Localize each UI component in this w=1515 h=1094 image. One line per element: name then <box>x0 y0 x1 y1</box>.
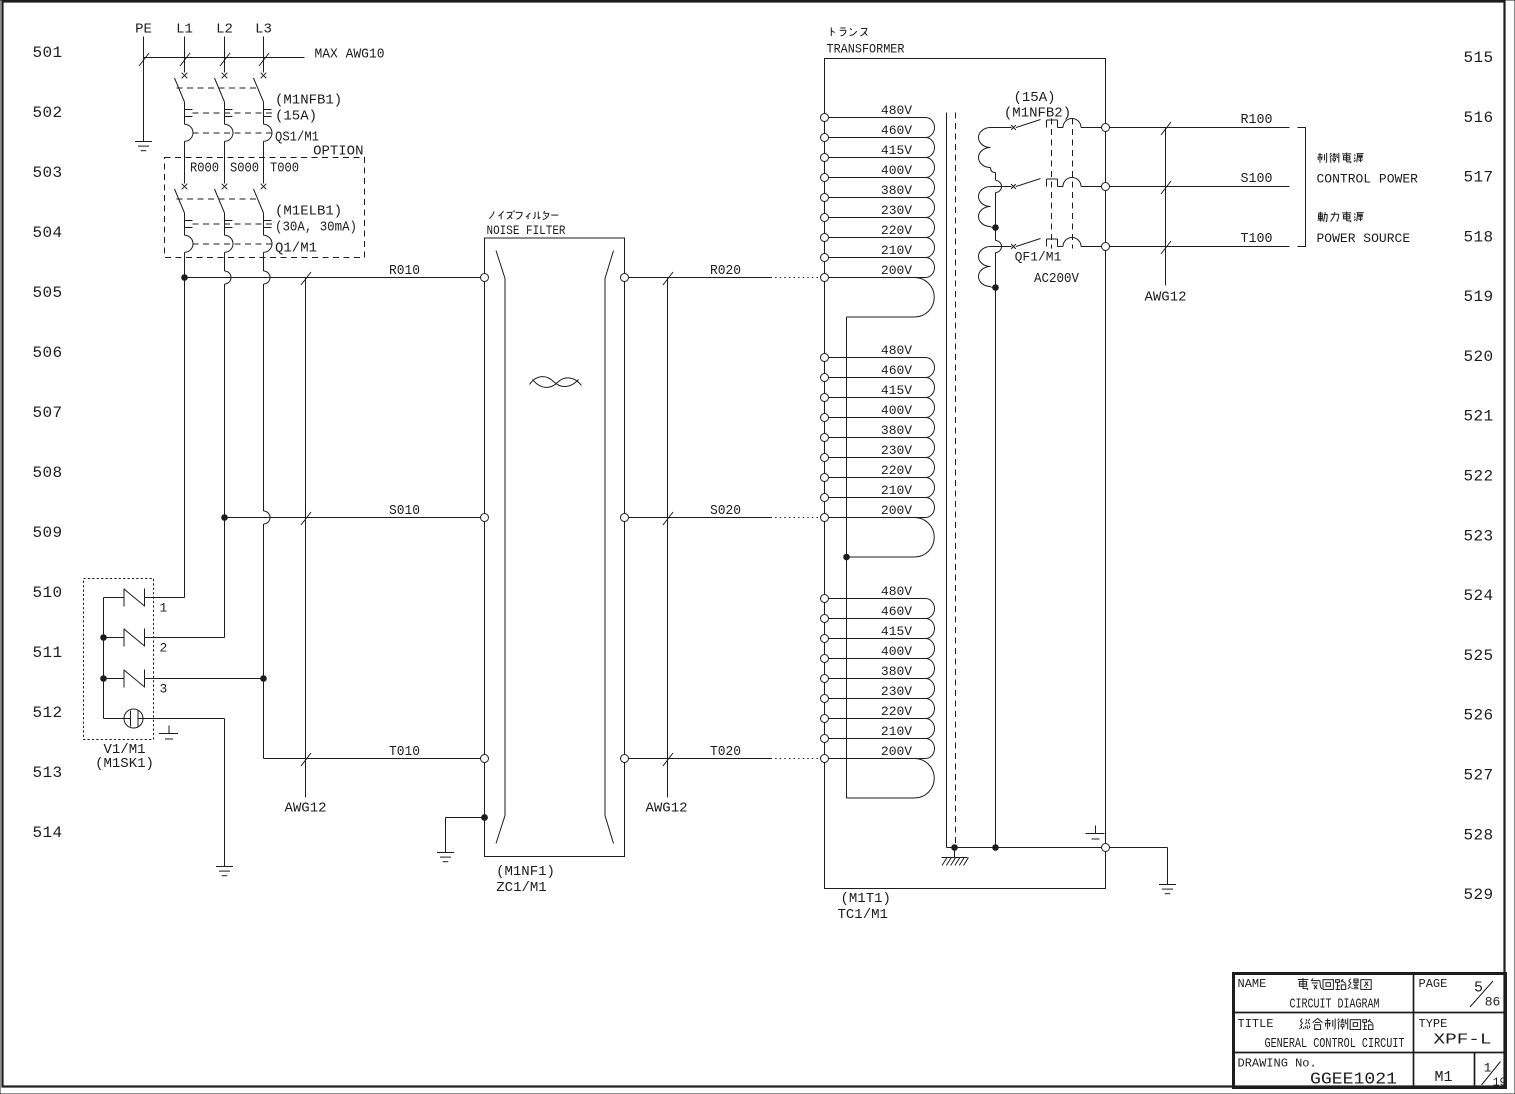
primary winding arc group 2 turn 1 <box>926 358 935 378</box>
wire S010 <box>225 517 481 519</box>
wire AWG12 gauge indicator right <box>1165 128 1167 286</box>
svg-text:POWER SOURCE: POWER SOURCE <box>1317 231 1411 246</box>
primary winding arc group 1 turn 1 <box>926 118 935 138</box>
gauge slash T020 <box>663 753 673 766</box>
terminal primary tap 220V group 2 <box>821 474 829 482</box>
svg-text:GGEE1021: GGEE1021 <box>1310 1071 1397 1090</box>
primary tap wire 400V group 1 <box>829 177 926 179</box>
svg-text:AC200V: AC200V <box>1034 271 1080 287</box>
wire arrester 3 to left bus <box>104 678 125 680</box>
primary winding arc group 1 turn 5 <box>926 198 935 218</box>
svg-text:517: 517 <box>1463 169 1493 187</box>
svg-text:518: 518 <box>1463 228 1493 246</box>
breaker QF1/M1 pole S <box>1011 178 1101 189</box>
svg-text:(M1NFB2): (M1NFB2) <box>1004 106 1071 122</box>
wire S coil bottom to common + junction <box>991 227 996 228</box>
terminal primary tap 210V group 3 <box>821 735 829 743</box>
secondary coil T <box>979 247 991 287</box>
svg-text:T020: T020 <box>710 744 741 760</box>
svg-text:TRANSFORMER: TRANSFORMER <box>827 42 905 57</box>
svg-text:521: 521 <box>1463 408 1493 426</box>
gauge slash R100 <box>1161 122 1171 135</box>
wire noise filter earth <box>446 818 485 853</box>
terminal primary tap 400V group 2 <box>821 414 829 422</box>
wire PE vertical <box>143 37 145 142</box>
wire earth out to ground <box>1110 848 1168 885</box>
terminal primary tap 460V group 2 <box>821 374 829 382</box>
svg-text:L1: L1 <box>176 22 193 38</box>
wire coil R to breaker <box>991 127 1012 129</box>
primary winding arc group 1 turn 4 <box>926 178 935 198</box>
wire coil T to breaker <box>991 246 1012 248</box>
wire S020 <box>629 517 821 519</box>
svg-text:TC1/M1: TC1/M1 <box>838 907 888 923</box>
svg-text:400V: 400V <box>881 163 912 178</box>
svg-text:230V: 230V <box>881 203 912 218</box>
wire AWG12 gauge indicator middle <box>667 278 669 798</box>
svg-text:T000: T000 <box>270 161 299 177</box>
primary tap wire 200V group 3 <box>829 758 926 760</box>
svg-text:520: 520 <box>1463 348 1493 366</box>
svg-text:415V: 415V <box>881 143 912 158</box>
svg-text:230V: 230V <box>881 684 912 699</box>
wire T column to T010 <box>263 679 265 759</box>
svg-text:NAME: NAME <box>1238 977 1267 991</box>
svg-text:516: 516 <box>1463 109 1493 127</box>
svg-text:NOISE FILTER: NOISE FILTER <box>487 223 566 238</box>
surge absorber V1/M1 dotted box <box>84 579 154 740</box>
svg-text:505: 505 <box>32 284 62 302</box>
noise filter inner rail right <box>605 251 614 844</box>
terminal R right <box>621 274 629 282</box>
svg-text:529: 529 <box>1463 886 1493 904</box>
breaker Q1/M1 pole R <box>175 184 194 253</box>
svg-text:400V: 400V <box>881 403 912 418</box>
noise filter wave symbol <box>530 377 582 388</box>
label noise filter katakana <box>489 211 558 220</box>
wire L3 drop to breaker <box>263 37 265 73</box>
svg-text:210V: 210V <box>881 243 912 258</box>
svg-text:480V: 480V <box>881 584 912 599</box>
svg-text:CIRCUIT DIAGRAM: CIRCUIT DIAGRAM <box>1290 997 1380 1013</box>
gauge slash S020 <box>663 512 673 525</box>
wire R000 between breakers <box>184 141 186 183</box>
terminal T right <box>621 755 629 763</box>
arrester 3 <box>124 670 145 688</box>
svg-text:AWG12: AWG12 <box>645 801 687 817</box>
noise filter inner rail left <box>496 251 505 844</box>
transformer core bar solid <box>946 113 948 848</box>
terminal T left <box>481 755 489 763</box>
terminal primary tap 210V group 1 <box>821 254 829 262</box>
wire primary common return <box>846 317 848 798</box>
svg-text:380V: 380V <box>881 423 912 438</box>
label control power japanese <box>1317 153 1363 164</box>
svg-text:19: 19 <box>1493 1077 1507 1090</box>
wire arrester 1 to left bus <box>104 597 125 599</box>
breaker QS1/M1 pole L1 <box>175 73 194 142</box>
primary winding arc group 3 turn 7 <box>926 719 935 739</box>
primary winding end arc group 1 <box>847 278 935 318</box>
svg-text:513: 513 <box>32 764 62 782</box>
primary winding arc group 1 turn 3 <box>926 158 935 178</box>
primary tap wire 415V group 3 <box>829 638 926 640</box>
primary tap wire 200V group 2 <box>829 517 926 519</box>
wire T100 <box>1110 246 1290 248</box>
label title japanese <box>1300 1018 1373 1029</box>
primary tap wire 400V group 2 <box>829 417 926 419</box>
svg-text:R000: R000 <box>190 161 219 177</box>
svg-text:480V: 480V <box>881 103 912 118</box>
primary winding arc group 3 turn 2 <box>926 619 935 639</box>
svg-text:2: 2 <box>160 641 168 656</box>
primary winding arc group 2 turn 3 <box>926 398 935 418</box>
terminal primary tap 380V group 3 <box>821 675 829 683</box>
gauge slash T010 <box>301 753 311 766</box>
primary tap wire 480V group 2 <box>829 357 926 359</box>
junction dot primary return group2 <box>843 554 850 561</box>
terminal primary tap 480V group 3 <box>821 595 829 603</box>
svg-text:T010: T010 <box>389 744 420 760</box>
terminal primary tap 220V group 3 <box>821 715 829 723</box>
svg-text:Q1/M1: Q1/M1 <box>275 241 317 257</box>
svg-text:509: 509 <box>32 524 62 542</box>
chassis ground hatched <box>942 848 969 866</box>
primary tap wire 220V group 3 <box>829 718 926 720</box>
page fraction 5/86 <box>1470 980 1500 1010</box>
breaker QF1/M1 pole R <box>1011 119 1101 130</box>
wire secondary common vertical <box>996 173 1002 848</box>
junction dot screen to earth <box>951 844 958 851</box>
terminal R left <box>481 274 489 282</box>
arrester 1 <box>124 589 145 607</box>
svg-text:515: 515 <box>1463 49 1493 67</box>
primary tap wire 480V group 1 <box>829 117 926 119</box>
wire L2 drop to breaker <box>224 37 226 73</box>
breaker QF1/M1 linkage dashed <box>1052 119 1073 249</box>
svg-text:S010: S010 <box>389 503 420 519</box>
junction dot secondary common to earth <box>992 844 999 851</box>
primary winding arc group 3 turn 3 <box>926 639 935 659</box>
svg-text:XPF-L: XPF-L <box>1434 1032 1492 1049</box>
svg-text:504: 504 <box>32 224 62 242</box>
terminal primary tap 415V group 3 <box>821 635 829 643</box>
terminal primary tap 480V group 2 <box>821 354 829 362</box>
primary winding arc group 3 turn 6 <box>926 699 935 719</box>
svg-text:3: 3 <box>160 682 168 697</box>
svg-text:380V: 380V <box>881 664 912 679</box>
svg-text:(M1ELB1): (M1ELB1) <box>275 204 342 220</box>
terminal secondary S <box>1102 183 1110 191</box>
primary winding arc group 2 turn 6 <box>926 458 935 478</box>
terminal S right <box>621 514 629 522</box>
label name japanese <box>1298 978 1371 990</box>
terminal secondary R <box>1102 124 1110 132</box>
svg-text:503: 503 <box>32 164 62 182</box>
svg-text:(30A, 30mA): (30A, 30mA) <box>275 220 357 236</box>
gauge slash L2 <box>220 53 230 66</box>
svg-text:506: 506 <box>32 344 62 362</box>
svg-text:508: 508 <box>32 464 62 482</box>
wire S000 between breakers <box>224 141 226 183</box>
primary tap wire 460V group 1 <box>829 137 926 139</box>
svg-text:TYPE: TYPE <box>1419 1017 1448 1031</box>
terminal earth noise filter <box>481 814 488 821</box>
svg-text:OPTION: OPTION <box>313 144 363 160</box>
wire T000 between breakers <box>263 141 265 183</box>
wire L2 to arrester 2 <box>145 518 225 638</box>
svg-text:510: 510 <box>32 584 62 602</box>
primary tap wire 460V group 3 <box>829 618 926 620</box>
svg-text:523: 523 <box>1463 527 1493 545</box>
svg-text:400V: 400V <box>881 644 912 659</box>
breaker Q1/M1 pole S <box>215 184 234 253</box>
primary tap wire 200V group 1 <box>829 277 926 279</box>
wire arrester 3 to T column <box>145 678 264 680</box>
svg-text:501: 501 <box>32 44 62 62</box>
ground under V1 drop <box>216 867 233 876</box>
svg-text:527: 527 <box>1463 767 1493 785</box>
wire T010 <box>264 758 481 760</box>
breaker QS1/M1 linkage dashed lines <box>177 88 273 133</box>
primary winding end arc group 2 <box>847 518 935 558</box>
title block frame <box>1234 974 1506 1088</box>
primary winding arc group 2 turn 2 <box>926 378 935 398</box>
wire V1 left bus <box>103 598 105 719</box>
svg-text:GENERAL CONTROL CIRCUIT: GENERAL CONTROL CIRCUIT <box>1265 1036 1405 1052</box>
svg-text:522: 522 <box>1463 468 1493 486</box>
terminal transformer earth <box>1102 844 1110 852</box>
wire S100 <box>1110 186 1290 188</box>
ground noise filter earth <box>437 853 454 862</box>
svg-text:DRAWING No.: DRAWING No. <box>1238 1057 1317 1071</box>
svg-text:T100: T100 <box>1241 231 1273 247</box>
wire R100 <box>1110 127 1290 129</box>
svg-text:210V: 210V <box>881 483 912 498</box>
label transformer katakana <box>831 27 867 36</box>
bracket power outputs <box>1298 128 1306 247</box>
svg-text:507: 507 <box>32 404 62 422</box>
terminal secondary T <box>1102 243 1110 251</box>
svg-text:(M1NFB1): (M1NFB1) <box>275 93 342 109</box>
svg-text:S000: S000 <box>230 161 259 177</box>
primary winding arc group 1 turn 6 <box>926 218 935 238</box>
svg-text:512: 512 <box>32 704 62 722</box>
primary winding arc group 2 turn 7 <box>926 478 935 498</box>
svg-text:460V: 460V <box>881 363 912 378</box>
wire L1 breaker to R010 junction <box>184 252 186 277</box>
gauge slash T100 <box>1161 241 1171 254</box>
svg-text:528: 528 <box>1463 826 1493 844</box>
breaker Q1/M1 pole T <box>254 184 273 253</box>
svg-text:(15A): (15A) <box>275 109 317 125</box>
gauge slash S100 <box>1161 181 1171 194</box>
terminal primary tap 380V group 1 <box>821 194 829 202</box>
svg-text:502: 502 <box>32 104 62 122</box>
wire R coil bottom to common <box>991 168 996 173</box>
transformer box <box>825 59 1106 889</box>
junction dot T column / arrester 3 <box>260 675 267 682</box>
secondary coil S <box>979 187 991 227</box>
svg-text:480V: 480V <box>881 343 912 358</box>
svg-text:200V: 200V <box>881 744 912 759</box>
sheet fraction 1/19 <box>1482 1061 1507 1090</box>
primary tap wire 230V group 1 <box>829 217 926 219</box>
secondary coil R <box>979 128 991 168</box>
primary winding arc group 2 turn 8 <box>926 498 935 518</box>
primary tap wire 210V group 2 <box>829 497 926 499</box>
primary tap wire 380V group 2 <box>829 437 926 439</box>
terminal primary tap 210V group 2 <box>821 494 829 502</box>
breaker Q1/M1 linkage dashed lines <box>177 199 273 244</box>
primary winding arc group 1 turn 2 <box>926 138 935 158</box>
svg-text:R020: R020 <box>710 263 741 279</box>
junction dot R010 <box>181 274 188 281</box>
label power source japanese <box>1318 212 1364 223</box>
svg-text:526: 526 <box>1463 707 1493 725</box>
terminal primary tap 230V group 1 <box>821 214 829 222</box>
svg-text:L2: L2 <box>216 22 233 38</box>
gauge slash S010 <box>301 512 311 525</box>
svg-text:MAX AWG10: MAX AWG10 <box>315 47 385 63</box>
wire MAX AWG10 gauge line <box>144 57 305 59</box>
earth marker above terminal <box>1086 826 1105 840</box>
svg-text:524: 524 <box>1463 587 1493 605</box>
primary winding arc group 2 turn 5 <box>926 438 935 458</box>
transformer core screen dashed <box>955 113 957 848</box>
ground PE earth symbol <box>135 142 152 151</box>
wire T coil bottom to common + junction <box>991 287 996 288</box>
wire L1 to arrester 1 <box>145 278 185 598</box>
terminal primary tap 380V group 2 <box>821 434 829 442</box>
svg-text:S020: S020 <box>710 503 741 519</box>
terminal primary tap 200V group 1 <box>821 274 829 282</box>
svg-text:(M1T1): (M1T1) <box>841 891 891 907</box>
primary tap wire 400V group 3 <box>829 658 926 660</box>
svg-text:380V: 380V <box>881 183 912 198</box>
wire tube to ground drop <box>138 719 225 867</box>
svg-text:R010: R010 <box>389 263 420 279</box>
gauge slash L1 <box>180 53 190 66</box>
arrester 2 <box>124 629 145 647</box>
noise filter box <box>485 238 625 857</box>
svg-text:1: 1 <box>160 601 168 616</box>
primary winding arc group 3 turn 8 <box>926 739 935 759</box>
wire R020 <box>629 277 821 279</box>
primary tap wire 220V group 1 <box>829 237 926 239</box>
svg-text:220V: 220V <box>881 704 912 719</box>
terminal primary tap 415V group 2 <box>821 394 829 402</box>
svg-text:460V: 460V <box>881 604 912 619</box>
svg-text:PAGE: PAGE <box>1419 977 1448 991</box>
svg-text:PE: PE <box>135 22 152 38</box>
terminal primary tap 460V group 1 <box>821 134 829 142</box>
svg-text:AWG12: AWG12 <box>284 801 326 817</box>
svg-text:514: 514 <box>32 824 62 842</box>
primary tap wire 230V group 2 <box>829 457 926 459</box>
svg-text:S100: S100 <box>1241 171 1273 187</box>
svg-text:CONTROL POWER: CONTROL POWER <box>1317 172 1419 187</box>
breaker QS1/M1 pole L2 <box>215 73 234 142</box>
primary tap wire 230V group 3 <box>829 698 926 700</box>
wire coil S to breaker <box>991 186 1012 188</box>
primary winding arc group 3 turn 4 <box>926 659 935 679</box>
primary tap wire 380V group 3 <box>829 678 926 680</box>
primary tap wire 415V group 1 <box>829 157 926 159</box>
gauge slash R020 <box>663 272 673 285</box>
svg-text:TITLE: TITLE <box>1238 1017 1274 1031</box>
primary winding arc group 1 turn 7 <box>926 238 935 258</box>
svg-text:AWG12: AWG12 <box>1144 290 1186 306</box>
wire R010 <box>185 277 481 279</box>
primary tap wire 460V group 2 <box>829 377 926 379</box>
primary tap wire 210V group 3 <box>829 738 926 740</box>
terminal primary tap 400V group 1 <box>821 174 829 182</box>
wire T020 <box>629 758 821 760</box>
svg-text:(M1SK1): (M1SK1) <box>95 756 154 772</box>
svg-text:ZC1/M1: ZC1/M1 <box>496 880 546 896</box>
gauge slash R010 <box>301 272 311 285</box>
terminal primary tap 460V group 3 <box>821 615 829 623</box>
primary tap wire 415V group 2 <box>829 397 926 399</box>
wire S column through R010 with hop <box>225 252 232 517</box>
terminal primary tap 200V group 2 <box>821 514 829 522</box>
wire transformer earth line <box>947 847 1102 849</box>
wire AWG12 gauge indicator left <box>305 278 307 798</box>
primary winding arc group 1 turn 8 <box>926 258 935 278</box>
svg-text:M1: M1 <box>1434 1069 1452 1086</box>
svg-text:220V: 220V <box>881 463 912 478</box>
wire bus to tube <box>104 718 131 720</box>
svg-text:86: 86 <box>1485 995 1501 1010</box>
svg-text:(M1NF1): (M1NF1) <box>496 864 555 880</box>
terminal primary tap 480V group 1 <box>821 114 829 122</box>
primary tap wire 210V group 1 <box>829 257 926 259</box>
svg-text:(15A): (15A) <box>1013 90 1055 106</box>
junction dot bus pin3 <box>100 675 107 682</box>
svg-text:511: 511 <box>32 644 62 662</box>
primary winding arc group 3 turn 1 <box>926 599 935 619</box>
primary winding arc group 3 turn 5 <box>926 679 935 699</box>
primary tap wire 220V group 2 <box>829 477 926 479</box>
svg-text:210V: 210V <box>881 724 912 739</box>
breaker QF1/M1 pole T <box>1011 238 1101 249</box>
terminal primary tap 400V group 3 <box>821 655 829 663</box>
svg-text:460V: 460V <box>881 123 912 138</box>
discharge gap tube V1 <box>124 709 143 728</box>
wire arrester 2 to left bus <box>104 637 125 639</box>
wire L1 drop to breaker <box>184 37 186 73</box>
terminal primary tap 415V group 1 <box>821 154 829 162</box>
svg-text:519: 519 <box>1463 288 1493 306</box>
terminal primary tap 230V group 2 <box>821 454 829 462</box>
ground transformer earth <box>1159 885 1176 894</box>
svg-text:415V: 415V <box>881 383 912 398</box>
primary winding arc group 2 turn 4 <box>926 418 935 438</box>
svg-text:525: 525 <box>1463 647 1493 665</box>
terminal primary tap 200V group 3 <box>821 755 829 763</box>
breaker QS1/M1 pole L3 <box>254 73 273 142</box>
terminal primary tap 230V group 3 <box>821 695 829 703</box>
primary tap wire 380V group 1 <box>829 197 926 199</box>
gauge slash PE <box>139 53 149 66</box>
primary winding end arc group 3 <box>847 759 935 799</box>
svg-text:415V: 415V <box>881 624 912 639</box>
primary tap wire 480V group 3 <box>829 598 926 600</box>
terminal primary tap 220V group 1 <box>821 234 829 242</box>
svg-text:QF1/M1: QF1/M1 <box>1015 250 1062 265</box>
svg-text:200V: 200V <box>881 503 912 518</box>
